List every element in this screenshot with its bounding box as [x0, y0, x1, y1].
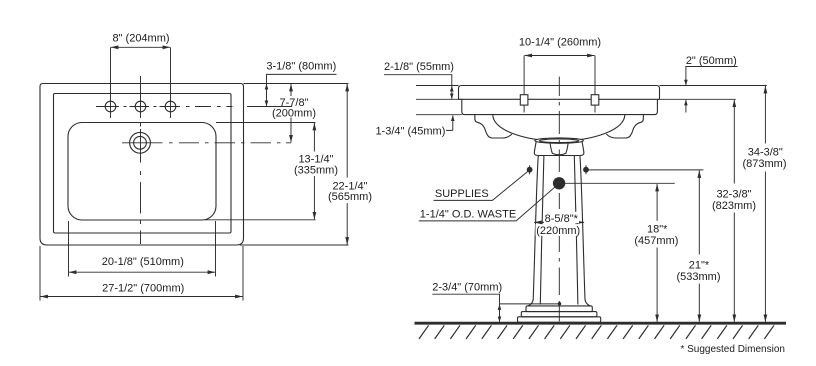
- sink bottom edge extension right: [240, 244, 349, 246]
- dimension 1-3/4: leader with up arrow: [446, 116, 453, 131]
- faucet hole right: [165, 101, 176, 112]
- svg-text:20-1/8" (510mm): 20-1/8" (510mm): [102, 256, 184, 268]
- svg-text:SUPPLIES: SUPPLIES: [435, 188, 489, 200]
- svg-text:(335mm): (335mm): [294, 164, 338, 176]
- svg-text:* Suggested Dimension: * Suggested Dimension: [680, 344, 785, 355]
- dimension 27-1/2: extension line left: [39, 246, 41, 301]
- svg-text:(823mm): (823mm): [712, 200, 756, 212]
- dimension 2-3/4: attachment dot: [558, 302, 561, 305]
- SUPPLIES underline and leader to supply dot: [434, 170, 530, 200]
- dimension 7-7/8: dim line upper segment with up arrow: [290, 84, 292, 96]
- svg-text:(873mm): (873mm): [742, 158, 786, 170]
- dimension 32-3/8: dim line lower segment with down arrow: [733, 213, 735, 322]
- dimension 8in: extension line left: [110, 47, 112, 118]
- dimension 27-1/2: dim line with arrows: [41, 296, 243, 298]
- dimension 2in: label underline and leader with down arrow: [686, 67, 738, 86]
- sink vertical centerline dash-dot: [140, 76, 142, 244]
- svg-text:2" (50mm): 2" (50mm): [686, 55, 737, 67]
- deck bottom extension line right: [660, 98, 736, 100]
- floor line: [415, 322, 787, 325]
- right view: pedestal capital rim ellipse: [535, 138, 584, 143]
- svg-text:21"*: 21"*: [689, 260, 710, 272]
- right view: column right inner flute: [574, 155, 578, 304]
- dimension 2in: up arrow below: [685, 100, 687, 113]
- faucet shank square right: [591, 95, 599, 105]
- left view: sink top-view outer rim: [40, 84, 244, 246]
- svg-text:8-5/8"*: 8-5/8"*: [545, 213, 579, 225]
- svg-text:(200mm): (200mm): [272, 107, 316, 119]
- floor hatching: [419, 325, 774, 339]
- drain centerline horizontal dash-dot: [122, 142, 291, 144]
- supplies extension line right: [586, 169, 703, 171]
- faucet centerline horizontal dash-dot: [96, 106, 233, 108]
- drain outer circle: [130, 132, 151, 153]
- waste outlet dot: [553, 177, 565, 189]
- right view: pedestal capital body: [534, 141, 584, 156]
- apron bottom extension line left: [416, 114, 462, 116]
- dimension 18: dim line upper segment with up arrow: [656, 184, 658, 221]
- dimension 3-1/8: double arrow: [266, 84, 268, 106]
- basin bottom edge extension right: [205, 219, 316, 221]
- right view: apron below deck: [462, 99, 658, 114]
- right view: left corbel bracket: [475, 115, 512, 138]
- dimension 10-1/4: extension line right: [594, 56, 596, 95]
- right view: base step 2: [521, 312, 597, 317]
- dimension 20-1/8: dim line with arrows: [69, 271, 215, 273]
- svg-text:18"*: 18"*: [647, 224, 668, 236]
- right view: capital inner flute: [550, 143, 568, 155]
- left view: inner rim line: [54, 94, 232, 234]
- dimension 34-3/8: dim line lower segment with down arrow: [764, 172, 766, 322]
- waste extension line right: [559, 182, 675, 184]
- svg-text:(565mm): (565mm): [328, 191, 372, 203]
- svg-text:(220mm): (220mm): [536, 225, 580, 237]
- dimension 34-3/8: dim line upper segment with up arrow: [764, 86, 766, 144]
- drain inner circle: [134, 136, 147, 149]
- sink top edge extension right: [244, 83, 349, 85]
- dimension 21: dim line upper segment with up arrow: [698, 171, 700, 255]
- svg-text:27-1/2" (700mm): 27-1/2" (700mm): [102, 283, 184, 295]
- dimension 2-3/4: extension line to pedestal: [500, 303, 560, 305]
- deck bottom extension line left: [416, 98, 462, 100]
- dimension 20-1/8: extension line right: [215, 221, 217, 277]
- dimension 22-1/4: dim line lower segment with down arrow: [346, 203, 348, 245]
- dimension 8in: dimension line with arrows: [111, 46, 170, 48]
- dimension 7-7/8: dim line lower segment with down arrow: [290, 118, 292, 143]
- dimension 10-1/4: extension line left: [523, 56, 525, 95]
- left view: basin bowl rim: [68, 123, 216, 221]
- faucet centerline extension right: [247, 106, 292, 108]
- svg-text:10-1/4" (260mm): 10-1/4" (260mm): [519, 37, 601, 49]
- svg-text:8" (204mm): 8" (204mm): [112, 32, 169, 44]
- deck top extension line left: [416, 85, 459, 87]
- right view: capital rim inner arc: [539, 139, 579, 143]
- right view: column right outer edge: [580, 155, 590, 306]
- svg-text:1-3/4" (45mm): 1-3/4" (45mm): [375, 125, 445, 137]
- right view: column left outer edge: [528, 155, 538, 306]
- dimension 13-1/4: dim line upper segment with up arrow: [313, 123, 315, 152]
- right view: right corbel bracket: [606, 115, 643, 138]
- svg-text:3-1/8" (80mm): 3-1/8" (80mm): [266, 60, 336, 72]
- deck top extension line right: [660, 85, 767, 87]
- svg-text:34-3/8": 34-3/8": [748, 147, 783, 159]
- supply stop tick right: [585, 165, 587, 174]
- dimension 2-1/8: double arrow: [451, 86, 453, 99]
- dimension 27-1/2: extension line right: [242, 246, 244, 301]
- faucet hole center: [135, 101, 146, 112]
- faucet shank tick left below: [523, 105, 525, 112]
- right view: base step 1: [526, 306, 592, 312]
- supply stop dot left: [527, 167, 533, 173]
- dimension 8-5/8: label line 2 white backed: [536, 224, 582, 236]
- dimension 2-3/4: down arrowhead: [499, 314, 501, 322]
- faucet shank tick right below: [594, 105, 596, 112]
- supply stop dot right: [583, 167, 589, 173]
- faucet shank square left: [520, 95, 528, 105]
- dimension 10-1/4: dim line with arrows: [525, 55, 595, 57]
- dimension 21: dim line lower segment with down arrow: [698, 284, 700, 322]
- dimension 18: dim line lower segment with down arrow: [656, 248, 658, 322]
- dimension 20-1/8: extension line left: [68, 221, 70, 277]
- dimension 8-5/8: label line 1 white backed: [544, 212, 579, 223]
- dimension 2-3/4: up arrowhead: [499, 304, 501, 312]
- dimension 2-1/8: label underline and leader: [384, 75, 452, 85]
- dimension 8in: extension line right: [170, 47, 172, 118]
- dimension 8-5/8: dim line with outward arrows: [534, 221, 584, 223]
- svg-text:2-1/8" (55mm): 2-1/8" (55mm): [384, 61, 454, 73]
- right view: base step 3: [518, 317, 601, 323]
- supply stop tick left: [529, 165, 531, 174]
- dimension 32-3/8: dim line upper segment with up arrow: [733, 100, 735, 184]
- right view: vertical centerline dash-dot: [558, 77, 560, 322]
- svg-text:1-1/4" O.D. WASTE: 1-1/4" O.D. WASTE: [420, 208, 516, 220]
- svg-text:(457mm): (457mm): [634, 235, 678, 247]
- dimension 13-1/4: dim line lower segment with down arrow: [313, 176, 315, 219]
- svg-text:2-3/4" (70mm): 2-3/4" (70mm): [432, 282, 502, 294]
- right view: deck slab: [459, 86, 660, 100]
- dimension 22-1/4: dim line upper segment with up arrow: [346, 84, 348, 178]
- svg-text:32-3/8": 32-3/8": [716, 188, 751, 200]
- dimension 2-3/4: underline and leader: [432, 294, 499, 322]
- faucet hole left: [105, 101, 116, 112]
- right view: column left inner flute: [540, 155, 544, 304]
- dimension 3-1/8: label underline: [267, 74, 337, 83]
- right view: bowl underside arc: [493, 115, 625, 141]
- basin top edge extension right: [216, 122, 316, 124]
- svg-text:(533mm): (533mm): [676, 271, 720, 283]
- WASTE underline and leader to waste dot: [419, 184, 558, 221]
